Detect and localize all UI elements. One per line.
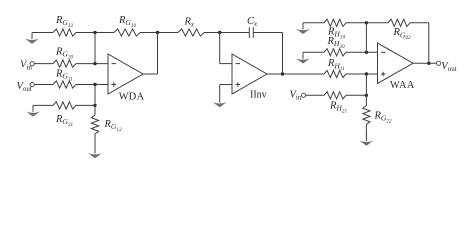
svg-text:RG12: RG12 <box>55 15 74 29</box>
svg-text:RG20: RG20 <box>55 46 74 60</box>
svg-text:RG12: RG12 <box>104 119 123 133</box>
svg-text:Vout: Vout <box>441 61 456 73</box>
svg-text:RG11: RG11 <box>55 68 73 82</box>
svg-text:RG21: RG21 <box>55 114 74 128</box>
svg-text:Vin: Vin <box>290 89 302 101</box>
svg-text:Vout: Vout <box>17 81 32 93</box>
svg-text:WDA: WDA <box>119 92 145 103</box>
svg-text:RH11: RH11 <box>327 58 345 72</box>
svg-text:RG22: RG22 <box>374 110 393 124</box>
svg-text:Rx: Rx <box>184 17 195 29</box>
svg-text:RH21: RH21 <box>329 101 348 115</box>
svg-text:WAA: WAA <box>390 80 415 91</box>
svg-text:Vin: Vin <box>20 59 32 71</box>
svg-text:IInv: IInv <box>250 90 267 101</box>
svg-text:RG02: RG02 <box>393 27 412 41</box>
svg-text:RG10: RG10 <box>118 15 137 29</box>
svg-text:Cx: Cx <box>247 16 258 28</box>
